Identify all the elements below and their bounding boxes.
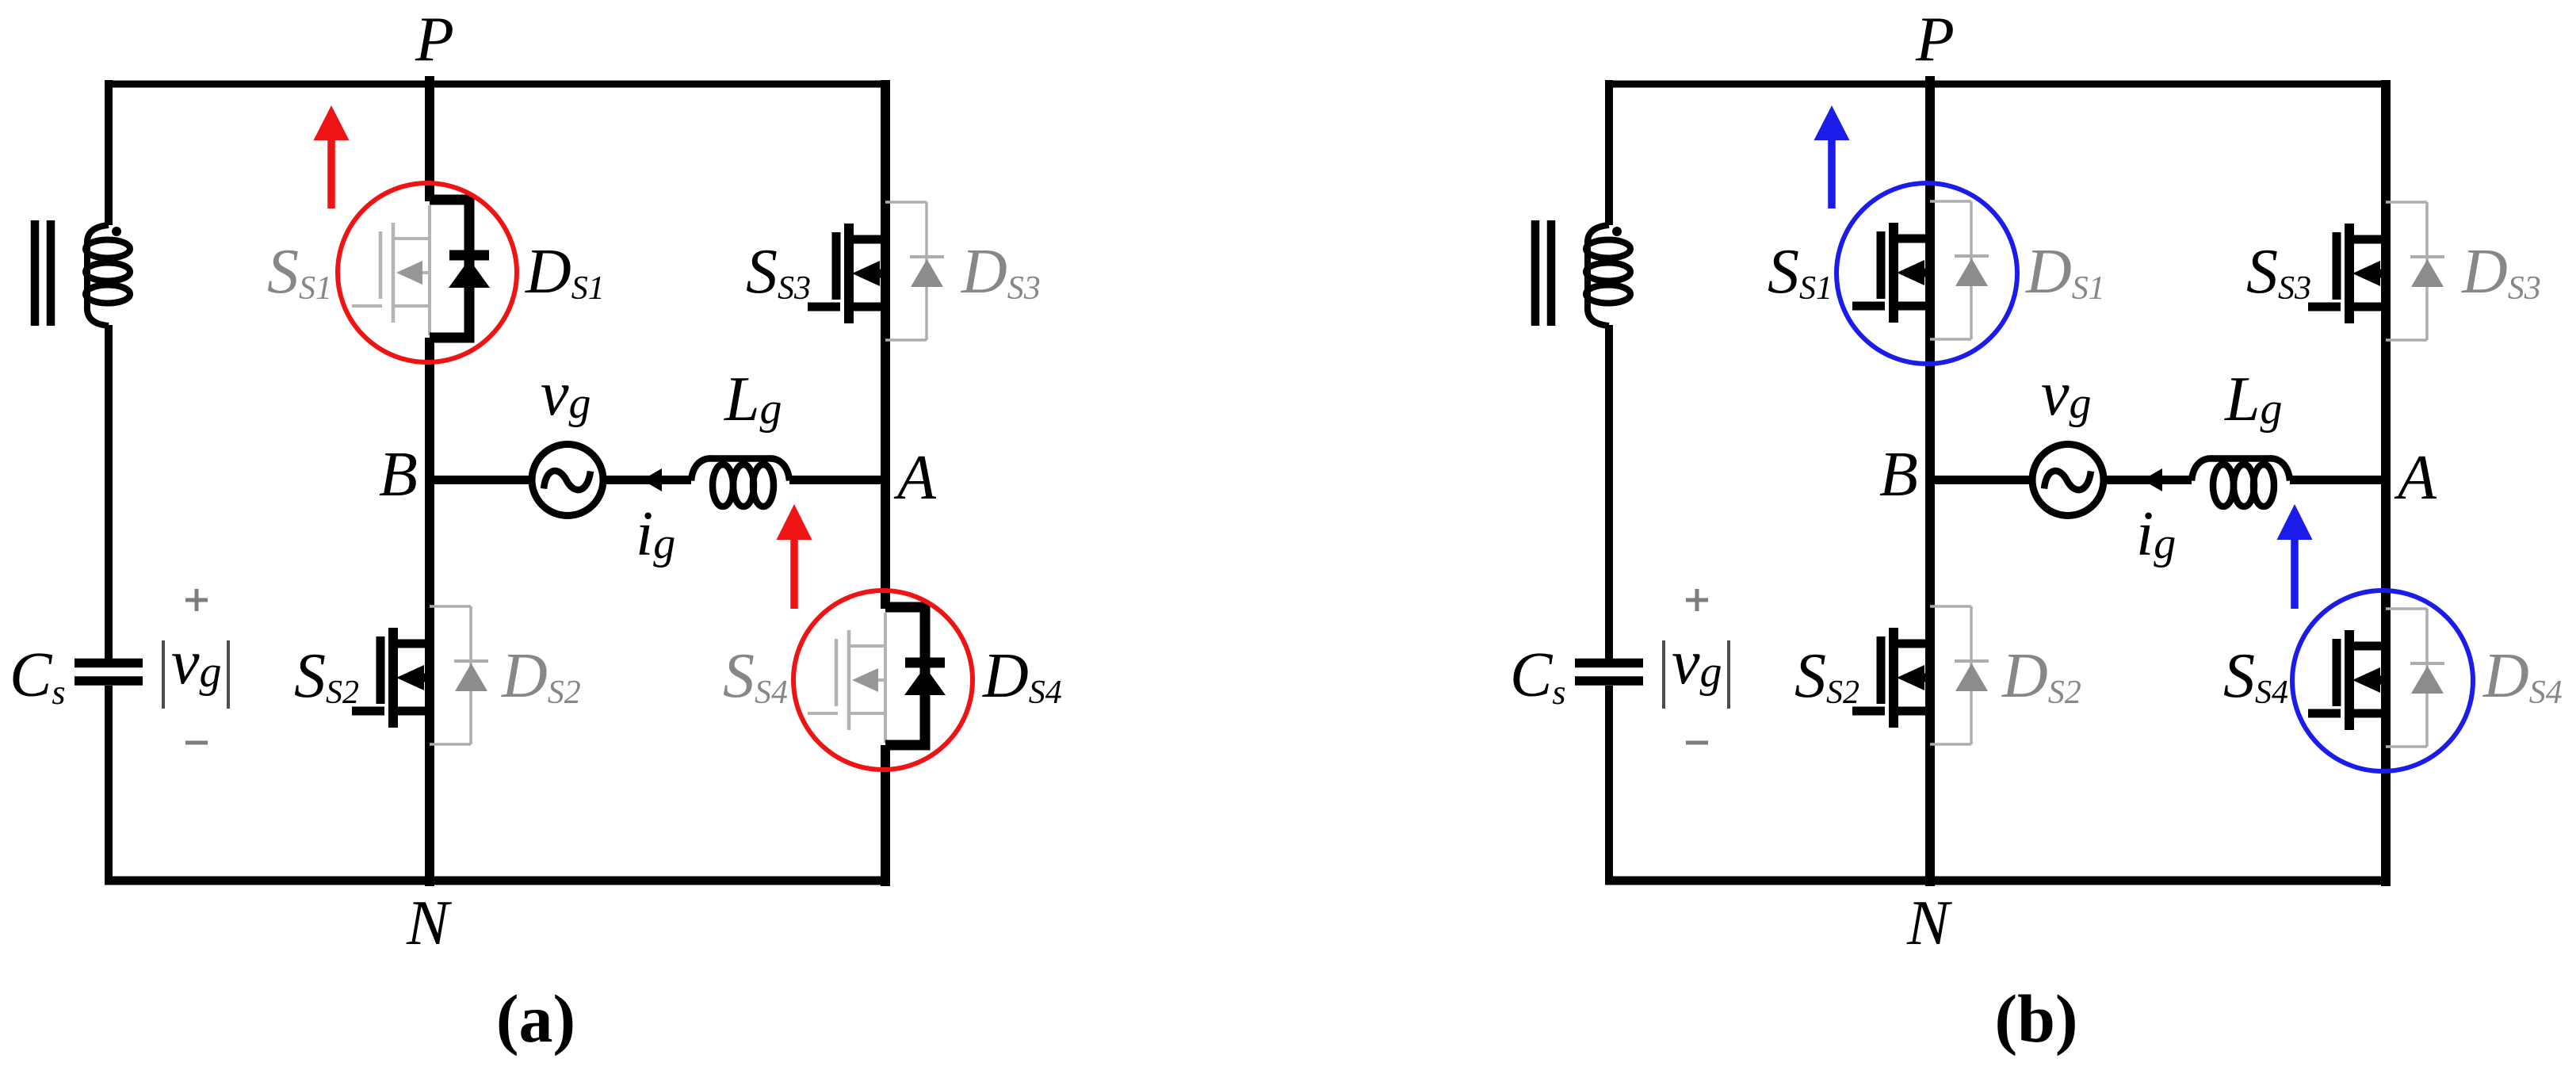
svg-text:A: A bbox=[893, 443, 937, 513]
svg-text:B: B bbox=[1879, 440, 1918, 510]
svg-text:B: B bbox=[379, 440, 418, 510]
svg-text:P: P bbox=[415, 5, 454, 75]
svg-text:(b): (b) bbox=[1994, 980, 2077, 1057]
svg-text:A: A bbox=[2394, 443, 2437, 513]
svg-text:N: N bbox=[406, 889, 453, 958]
svg-text:N: N bbox=[1906, 889, 1953, 958]
svg-text:(a): (a) bbox=[496, 980, 575, 1057]
svg-text:P: P bbox=[1915, 5, 1955, 75]
